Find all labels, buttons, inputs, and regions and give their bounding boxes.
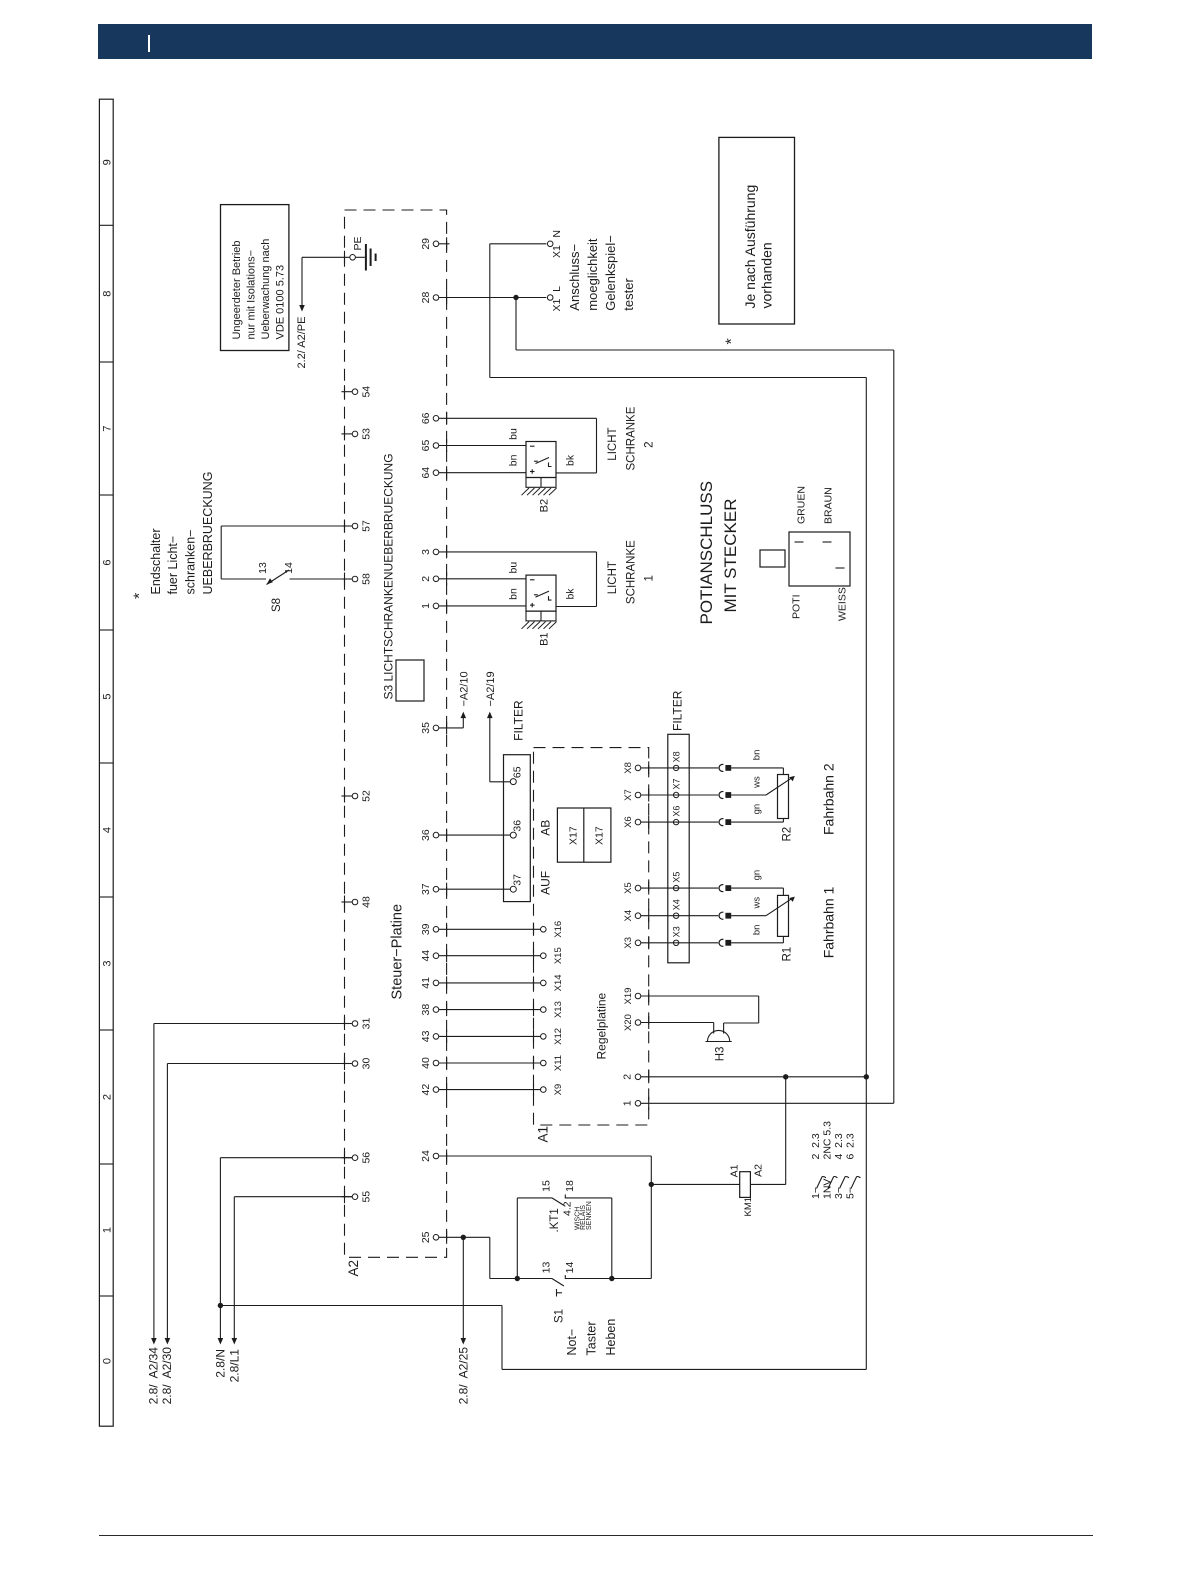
terminal 35 on A2 bbox=[433, 725, 439, 731]
svg-text:37: 37 bbox=[511, 874, 523, 886]
wire 28 to X1 L bbox=[439, 297, 547, 299]
terminal X16 on A1 bbox=[541, 927, 547, 933]
svg-text:29: 29 bbox=[420, 238, 432, 250]
svg-text:X5: X5 bbox=[672, 872, 682, 883]
column ruler scale 0-9 bbox=[99, 99, 113, 1426]
terminal 24 on A2 bbox=[433, 1153, 439, 1159]
filter box bbox=[504, 755, 531, 902]
svg-text:4.2: 4.2 bbox=[561, 1201, 573, 1216]
terminal 58 on A2 bbox=[341, 578, 352, 580]
svg-text:−A2/19: −A2/19 bbox=[485, 671, 497, 706]
svg-text:X1: X1 bbox=[551, 245, 563, 258]
terminal 56 on A2 bbox=[341, 1157, 352, 1159]
terminal X20 bbox=[635, 1020, 641, 1026]
terminal 53 on A2 bbox=[341, 433, 352, 435]
wire N: X1 N down and across to right rail bbox=[489, 244, 491, 378]
svg-text:X6: X6 bbox=[623, 816, 634, 828]
svg-text:bn: bn bbox=[752, 925, 763, 936]
svg-text:2: 2 bbox=[622, 1074, 634, 1080]
terminal 44 on A2 bbox=[433, 953, 439, 959]
wire KM1 A2 up to wire 2 bbox=[750, 1183, 785, 1185]
terminal 43 on A2 bbox=[433, 1034, 439, 1040]
svg-text:5−: 5− bbox=[845, 1187, 857, 1199]
svg-text:X8: X8 bbox=[623, 762, 634, 774]
inline connector bbox=[719, 885, 723, 892]
svg-text:5: 5 bbox=[102, 693, 114, 699]
bus pin X6 bbox=[673, 819, 678, 824]
R1 wiper arrow bbox=[766, 899, 791, 916]
regulator A1 dashed enclosure (Regelplatine) bbox=[534, 748, 649, 1125]
terminal 2 on A2 bbox=[433, 576, 439, 582]
terminal 3 on A2 bbox=[433, 549, 439, 555]
timed contact KT1 15-18 bbox=[517, 1197, 552, 1199]
svg-text:4 2.3: 4 2.3 bbox=[833, 1133, 845, 1159]
wire X8 bbox=[641, 767, 718, 769]
svg-text:X20: X20 bbox=[623, 1014, 634, 1031]
svg-text:bu: bu bbox=[508, 428, 520, 440]
svg-text:1: 1 bbox=[102, 1227, 114, 1233]
wire 2 (bn) to B1 bbox=[439, 578, 526, 580]
svg-text:S8: S8 bbox=[271, 598, 283, 612]
svg-text:PE: PE bbox=[352, 236, 364, 250]
svg-text:*: * bbox=[132, 593, 149, 599]
note box Je nach Ausfuehrung vorhanden bbox=[719, 137, 795, 324]
svg-text:6 2.3: 6 2.3 bbox=[845, 1133, 857, 1159]
svg-text:6: 6 bbox=[102, 559, 114, 565]
filter pin 37 bbox=[439, 888, 511, 890]
svg-text:38: 38 bbox=[420, 1004, 432, 1016]
terminal 52 on A2 bbox=[341, 795, 352, 797]
svg-text:25: 25 bbox=[420, 1231, 432, 1243]
svg-text:43: 43 bbox=[420, 1030, 432, 1042]
junction KM1 branch bbox=[649, 1182, 654, 1187]
wire to potentiometer bbox=[731, 887, 783, 889]
terminal X19 bbox=[635, 993, 641, 999]
connector X17 box bbox=[557, 808, 611, 862]
wire stub terminal 29 bbox=[439, 243, 450, 245]
svg-text:gn: gn bbox=[752, 870, 763, 881]
svg-text:vorhanden: vorhanden bbox=[759, 242, 775, 308]
svg-text:0: 0 bbox=[102, 1358, 114, 1364]
terminal 41 on A2 bbox=[433, 980, 439, 986]
wire to KM1 A1 bbox=[651, 1183, 739, 1185]
svg-text:Heben: Heben bbox=[604, 1319, 618, 1356]
terminal 31 on A2 bbox=[341, 1023, 352, 1025]
svg-text:13: 13 bbox=[541, 1262, 553, 1274]
svg-text:SENKEN: SENKEN bbox=[586, 1201, 593, 1230]
note box Ungeerdeter Betrieb VDE 0100 bbox=[221, 205, 289, 351]
svg-text:3−: 3− bbox=[833, 1187, 845, 1199]
terminal 25 on A2 bbox=[433, 1235, 439, 1241]
svg-text:X17: X17 bbox=[593, 826, 605, 845]
contact block rails bbox=[516, 1198, 518, 1279]
svg-text:2.8/ A2/34: 2.8/ A2/34 bbox=[147, 1347, 161, 1405]
wire 3 (bu) to B1 bbox=[439, 551, 597, 553]
svg-text:bn: bn bbox=[508, 454, 520, 466]
junction wire N rail bbox=[864, 1074, 869, 1079]
terminal 29 on A2 bbox=[433, 241, 439, 247]
svg-text:KM1: KM1 bbox=[743, 1197, 754, 1217]
terminal X14 on A1 bbox=[541, 980, 547, 986]
svg-text:UEBERBRUECKUNG: UEBERBRUECKUNG bbox=[201, 472, 215, 595]
svg-text:35: 35 bbox=[420, 722, 432, 734]
svg-text:53: 53 bbox=[361, 428, 373, 440]
wire 55 to sheet 2.8/L1 bbox=[234, 1196, 352, 1198]
svg-text:2NC 5.3: 2NC 5.3 bbox=[822, 1121, 834, 1160]
box S3 bbox=[396, 660, 424, 701]
svg-text:A1: A1 bbox=[536, 1126, 551, 1143]
svg-text:*: * bbox=[724, 338, 741, 344]
inline connector bbox=[719, 792, 723, 799]
svg-text:Steuer−Platine: Steuer−Platine bbox=[390, 904, 406, 1000]
bus pin X7 bbox=[673, 792, 678, 797]
svg-text:A2: A2 bbox=[346, 1260, 361, 1277]
svg-text:9: 9 bbox=[102, 159, 114, 165]
svg-text:Taster: Taster bbox=[584, 1321, 598, 1355]
controller A2 dashed enclosure (Steuer-Platine) bbox=[345, 210, 447, 1257]
svg-text:Fahrbahn 2: Fahrbahn 2 bbox=[821, 763, 837, 835]
svg-text:schranken−: schranken− bbox=[184, 530, 198, 595]
svg-text:39: 39 bbox=[420, 923, 432, 935]
wire filter 65 to A2/19 bbox=[490, 781, 510, 783]
pushbutton S1 13-14 bbox=[515, 1276, 520, 1281]
wire X4 bbox=[641, 915, 718, 917]
terminal PE bbox=[350, 254, 356, 260]
svg-text:X9: X9 bbox=[553, 1084, 564, 1096]
svg-text:VDE 0100 5.73: VDE 0100 5.73 bbox=[274, 265, 286, 340]
svg-text:GRUEN: GRUEN bbox=[795, 486, 807, 524]
svg-text:Anschluss−: Anschluss− bbox=[567, 244, 582, 311]
wire 65 (bn) to B2 bbox=[439, 445, 526, 447]
svg-text:18: 18 bbox=[564, 1180, 576, 1192]
svg-text:WEISS: WEISS bbox=[836, 587, 848, 621]
bus pin X8 bbox=[673, 765, 678, 770]
svg-text:2.8/L1: 2.8/L1 bbox=[227, 1349, 241, 1383]
svg-text:B2: B2 bbox=[539, 499, 551, 512]
inline connector bbox=[719, 764, 723, 771]
terminal X8 on A1 bbox=[635, 765, 641, 771]
contactor coil KM1 bbox=[740, 1172, 751, 1198]
svg-text:57: 57 bbox=[361, 520, 373, 532]
svg-text:X7: X7 bbox=[672, 778, 682, 789]
terminal X5 on A1 bbox=[635, 885, 641, 891]
wire X6 bbox=[641, 821, 718, 823]
svg-text:64: 64 bbox=[420, 467, 432, 479]
wire 66 (bu) to B2 bbox=[439, 417, 597, 419]
bus pin X4 bbox=[673, 913, 678, 918]
svg-text:44: 44 bbox=[420, 950, 432, 962]
switch S8 blade bbox=[267, 570, 290, 585]
filter pin 65 bbox=[510, 779, 516, 785]
R2 wiper arrow bbox=[766, 778, 791, 795]
svg-text:48: 48 bbox=[361, 896, 373, 908]
svg-text:24: 24 bbox=[420, 1150, 432, 1162]
svg-text:31: 31 bbox=[361, 1018, 373, 1030]
terminal X6 on A1 bbox=[635, 819, 641, 825]
svg-text:65: 65 bbox=[511, 766, 523, 778]
terminal X15 on A1 bbox=[541, 953, 547, 959]
svg-text:BRAUN: BRAUN bbox=[822, 487, 834, 524]
svg-text:H3: H3 bbox=[714, 1047, 726, 1062]
svg-text:N: N bbox=[551, 230, 563, 238]
wire to X14 bbox=[439, 982, 541, 984]
svg-text:fuer Licht−: fuer Licht− bbox=[166, 536, 180, 595]
svg-text:1NV: 1NV bbox=[822, 1179, 834, 1199]
svg-text:R1: R1 bbox=[782, 947, 794, 962]
inline connector bbox=[719, 939, 723, 946]
wire 24 bbox=[439, 1155, 652, 1157]
junction on wire 28 bbox=[513, 295, 518, 300]
wire L: junction 28 down and across to right rail bbox=[515, 298, 517, 351]
junction to KM1 A2 bbox=[783, 1074, 788, 1079]
svg-text:AB: AB bbox=[539, 820, 553, 836]
poti connector box bbox=[789, 532, 850, 586]
svg-text:bn: bn bbox=[508, 588, 520, 600]
ground symbol bbox=[365, 244, 367, 271]
svg-text:Ueberwachung nach: Ueberwachung nach bbox=[260, 239, 272, 340]
svg-text:2.8/ A2/25: 2.8/ A2/25 bbox=[456, 1347, 470, 1405]
terminal 1 on A2 bbox=[433, 603, 439, 609]
svg-text:bn: bn bbox=[752, 750, 763, 761]
svg-text:36: 36 bbox=[511, 820, 523, 832]
wire 25 bbox=[439, 1236, 490, 1238]
svg-text:14: 14 bbox=[564, 1262, 576, 1274]
svg-text:Ungeerdeter Betrieb: Ungeerdeter Betrieb bbox=[231, 240, 243, 339]
poti filter bus bbox=[668, 734, 689, 963]
svg-text:8: 8 bbox=[102, 291, 114, 297]
svg-text:41: 41 bbox=[420, 977, 432, 989]
terminal 42 on A2 bbox=[433, 1087, 439, 1093]
svg-text:66: 66 bbox=[420, 412, 432, 424]
svg-text:2: 2 bbox=[102, 1094, 114, 1100]
wire to X16 bbox=[439, 928, 541, 930]
sensor B1 body bbox=[526, 575, 556, 611]
svg-text:X11: X11 bbox=[553, 1055, 564, 1071]
svg-text:54: 54 bbox=[361, 386, 373, 398]
svg-text:56: 56 bbox=[361, 1152, 373, 1164]
svg-text:SCHRANKE: SCHRANKE bbox=[625, 540, 637, 604]
svg-text:X4: X4 bbox=[672, 899, 682, 910]
svg-text:1: 1 bbox=[622, 1100, 634, 1106]
svg-text:MIT STECKER: MIT STECKER bbox=[721, 499, 740, 613]
wire 35 to A2/10 bbox=[439, 727, 464, 729]
wire to potentiometer bbox=[731, 821, 783, 823]
svg-text:Je nach Ausführung: Je nach Ausführung bbox=[742, 185, 758, 309]
svg-text:37: 37 bbox=[420, 883, 432, 895]
svg-text:X6: X6 bbox=[672, 806, 682, 817]
lamp H3 bbox=[708, 1030, 730, 1041]
wire to X15 bbox=[439, 955, 541, 957]
svg-text:65: 65 bbox=[420, 440, 432, 452]
wire contact block to vertical bbox=[612, 1278, 652, 1280]
arrow to 2.2/A2/PE bbox=[299, 305, 305, 312]
terminal 1 on A1 bbox=[635, 1101, 641, 1107]
filter pin 36 bbox=[439, 834, 511, 836]
potentiometer R2 bbox=[778, 775, 789, 819]
svg-text:bu: bu bbox=[508, 562, 520, 574]
terminal 36 on A2 bbox=[433, 832, 439, 838]
terminal 54 on A2 bbox=[341, 391, 352, 393]
terminal X7 on A1 bbox=[635, 792, 641, 798]
svg-text:POTIANSCHLUSS: POTIANSCHLUSS bbox=[697, 481, 716, 625]
junction to sheet arrow bbox=[461, 1235, 466, 1240]
svg-text:X4: X4 bbox=[623, 910, 634, 922]
svg-text:1: 1 bbox=[420, 603, 432, 609]
bus pin X3 bbox=[673, 940, 678, 945]
svg-text:14: 14 bbox=[283, 562, 295, 574]
svg-text:Regelplatine: Regelplatine bbox=[595, 992, 609, 1059]
svg-text:58: 58 bbox=[361, 573, 373, 585]
S1 actuator bbox=[556, 1289, 558, 1297]
terminal X1 L bbox=[547, 295, 553, 301]
svg-text:bk: bk bbox=[565, 588, 577, 600]
svg-text:2.2/ A2/PE: 2.2/ A2/PE bbox=[296, 317, 308, 369]
terminal X3 on A1 bbox=[635, 940, 641, 946]
svg-text:R2: R2 bbox=[782, 827, 794, 842]
svg-text:42: 42 bbox=[420, 1084, 432, 1096]
svg-text:B1: B1 bbox=[539, 632, 551, 645]
wire to X11 bbox=[439, 1062, 541, 1064]
svg-text:nur mit Isolations−: nur mit Isolations− bbox=[246, 250, 258, 340]
wire X5 bbox=[641, 887, 718, 889]
svg-text:X5: X5 bbox=[623, 882, 634, 894]
wire to X13 bbox=[439, 1009, 541, 1011]
svg-text:2: 2 bbox=[420, 576, 432, 582]
svg-text:AUF: AUF bbox=[539, 871, 553, 895]
svg-text:X15: X15 bbox=[553, 947, 564, 964]
svg-text:tester: tester bbox=[621, 278, 636, 311]
svg-text:LICHT: LICHT bbox=[607, 427, 619, 460]
svg-text:X14: X14 bbox=[553, 974, 564, 991]
svg-text:X17: X17 bbox=[567, 826, 579, 845]
svg-text:L: L bbox=[551, 286, 563, 292]
terminal 55 on A2 bbox=[341, 1196, 352, 1198]
B1 transducer band with hatching bbox=[526, 611, 556, 621]
svg-text:gn: gn bbox=[752, 804, 763, 815]
wire to potentiometer bbox=[731, 915, 766, 917]
svg-text:ws: ws bbox=[752, 897, 763, 910]
svg-text:2 2.3: 2 2.3 bbox=[810, 1133, 822, 1159]
wire to potentiometer bbox=[731, 767, 783, 769]
svg-text:−A2/10: −A2/10 bbox=[459, 671, 471, 706]
terminal X12 on A1 bbox=[541, 1034, 547, 1040]
svg-text:.KT1: .KT1 bbox=[549, 1208, 561, 1232]
terminal 66 on A2 bbox=[433, 416, 439, 422]
pin marks bbox=[795, 541, 804, 543]
svg-text:4: 4 bbox=[102, 827, 114, 833]
svg-text:2.8/N: 2.8/N bbox=[213, 1349, 227, 1378]
svg-text:FILTER: FILTER bbox=[671, 690, 685, 731]
terminal X9 on A1 bbox=[541, 1087, 547, 1093]
switch S8 wiring bbox=[221, 525, 352, 527]
svg-text:Gelenkspiel−: Gelenkspiel− bbox=[603, 235, 618, 311]
terminal X13 on A1 bbox=[541, 1007, 547, 1013]
svg-text:X12: X12 bbox=[553, 1028, 564, 1045]
terminal 30 on A2 bbox=[341, 1063, 352, 1065]
svg-text:X3: X3 bbox=[623, 937, 634, 949]
wire 30 to sheet 2.8/A2/30 bbox=[167, 1063, 352, 1065]
sensor B2 body bbox=[526, 442, 556, 478]
svg-text:1−: 1− bbox=[810, 1187, 822, 1199]
wire to X12 bbox=[439, 1035, 541, 1037]
svg-text:bk: bk bbox=[565, 454, 577, 466]
svg-text:LICHT: LICHT bbox=[607, 561, 619, 594]
svg-text:SCHRANKE: SCHRANKE bbox=[625, 406, 637, 470]
terminal 37 on A2 bbox=[433, 886, 439, 892]
svg-text:X13: X13 bbox=[553, 1001, 564, 1018]
svg-text:2.8/ A2/30: 2.8/ A2/30 bbox=[160, 1347, 174, 1405]
wire to potentiometer bbox=[731, 794, 766, 796]
inline connector bbox=[719, 819, 723, 826]
svg-text:2: 2 bbox=[643, 441, 655, 447]
terminal 39 on A2 bbox=[433, 927, 439, 933]
wire PE to sheet 2.2 bbox=[302, 256, 350, 258]
wire X7 bbox=[641, 794, 718, 796]
B2 transducer band with hatching bbox=[526, 478, 556, 488]
svg-text:3: 3 bbox=[420, 549, 432, 555]
svg-text:X16: X16 bbox=[553, 921, 564, 938]
svg-text:FILTER: FILTER bbox=[512, 700, 526, 741]
potentiometer R1 bbox=[778, 895, 789, 936]
svg-text:52: 52 bbox=[361, 790, 373, 802]
svg-text:3: 3 bbox=[102, 960, 114, 966]
svg-text:X3: X3 bbox=[672, 926, 682, 937]
footer rule bbox=[99, 1535, 1093, 1537]
svg-text:13: 13 bbox=[257, 562, 269, 574]
terminal 65 on A2 bbox=[433, 443, 439, 449]
wire to potentiometer bbox=[731, 942, 783, 944]
wire 56 to sheet 2.8/N bbox=[220, 1157, 352, 1159]
svg-text:X1: X1 bbox=[551, 298, 563, 311]
svg-text:X19: X19 bbox=[623, 988, 634, 1005]
svg-text:ws: ws bbox=[752, 776, 763, 789]
wire 2 to contactor branch bbox=[641, 1076, 867, 1078]
svg-text:S1: S1 bbox=[554, 1309, 566, 1323]
svg-text:Not−: Not− bbox=[565, 1329, 579, 1356]
svg-text:28: 28 bbox=[420, 292, 432, 304]
svg-text:40: 40 bbox=[420, 1057, 432, 1069]
wire X19 to H3 bbox=[641, 995, 759, 997]
svg-text:7: 7 bbox=[102, 425, 114, 431]
bus pin X5 bbox=[673, 885, 678, 890]
terminal X11 on A1 bbox=[541, 1060, 547, 1066]
terminal 64 on A2 bbox=[433, 470, 439, 476]
svg-text:15: 15 bbox=[541, 1180, 553, 1192]
svg-text:36: 36 bbox=[420, 829, 432, 841]
terminal 57 on A2 bbox=[341, 525, 352, 527]
svg-text:1: 1 bbox=[643, 575, 655, 581]
svg-text:X8: X8 bbox=[672, 751, 682, 762]
svg-text:S3 LICHTSCHRANKENUEBERBRUECKUN: S3 LICHTSCHRANKENUEBERBRUECKUNG bbox=[381, 453, 395, 699]
svg-text:Fahrbahn 1: Fahrbahn 1 bbox=[821, 886, 837, 958]
header bar bbox=[98, 24, 1092, 59]
svg-text:A2: A2 bbox=[753, 1164, 765, 1177]
wire 31 to sheet 2.8/A2/34 bbox=[154, 1023, 352, 1025]
wire 1 (+) to B1 bbox=[439, 605, 526, 607]
terminal X1 N bbox=[490, 243, 547, 245]
junction N rail bbox=[218, 1303, 223, 1308]
inline connector bbox=[719, 912, 723, 919]
svg-text:30: 30 bbox=[361, 1058, 373, 1070]
wire X20 to H3 bbox=[641, 1022, 714, 1024]
plug nose bbox=[760, 550, 785, 567]
terminal 28 on A2 bbox=[433, 295, 439, 301]
terminal 48 on A2 bbox=[341, 901, 352, 903]
wire X3 bbox=[641, 942, 718, 944]
svg-text:Endschalter: Endschalter bbox=[149, 528, 163, 594]
svg-text:POTI: POTI bbox=[790, 594, 802, 619]
svg-text:moeglichkeit: moeglichkeit bbox=[585, 238, 600, 311]
